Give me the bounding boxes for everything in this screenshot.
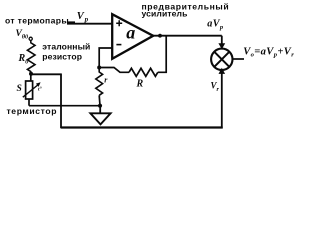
svg-text:эталонный: эталонный xyxy=(42,42,90,52)
node: output junction xyxy=(158,34,162,38)
svg-text:r: r xyxy=(104,75,108,84)
svg-text:S: S xyxy=(17,84,22,94)
wire: down into summing node with arrow xyxy=(218,36,225,50)
wire: Vr vertical xyxy=(221,70,223,129)
svg-text:усилитель: усилитель xyxy=(142,8,188,18)
resistor R (feedback) xyxy=(129,68,158,89)
wire: thermocouple to + input xyxy=(67,23,113,25)
wire: thermistor bottom xyxy=(28,99,30,106)
svg-text:Vr: Vr xyxy=(211,81,220,93)
svg-text:t°: t° xyxy=(38,86,43,93)
svg-text:Vp: Vp xyxy=(77,11,89,24)
op-amp U1 (preamplifier) xyxy=(112,14,153,59)
wire: r to ground xyxy=(98,95,101,105)
svg-text:термистор: термистор xyxy=(7,106,58,116)
svg-text:от термопары: от термопары xyxy=(5,16,69,26)
svg-text:aVp: aVp xyxy=(207,18,224,31)
wire: bottom rail xyxy=(61,126,223,128)
arrow: Vr into summing node xyxy=(219,68,226,74)
svg-text:Vθ0: Vθ0 xyxy=(16,29,29,41)
wire: Vr node riser xyxy=(60,74,62,128)
resistor R0 (reference) xyxy=(18,43,36,72)
wire: summing node output xyxy=(232,58,244,60)
thermistor S xyxy=(23,81,43,99)
wire: thermistor top to riser xyxy=(31,73,62,75)
svg-text:R0: R0 xyxy=(18,53,30,66)
wire: op-amp output xyxy=(152,35,222,37)
wire: junction to R xyxy=(99,68,129,73)
label: эталонный резистор xyxy=(42,42,90,62)
resistor r xyxy=(96,69,109,95)
svg-text:резистор: резистор xyxy=(42,51,82,61)
summing node (circle with X) xyxy=(211,49,232,70)
terminal Vθ0 xyxy=(29,37,32,40)
wire: ground rail xyxy=(29,105,100,107)
svg-text:R: R xyxy=(136,79,144,90)
node: ground junction xyxy=(98,104,102,108)
wire: R to output node xyxy=(158,36,166,73)
node: thermistor top xyxy=(29,72,33,76)
svg-text:Vo=aVp+Vr: Vo=aVp+Vr xyxy=(243,46,294,58)
svg-text:a: a xyxy=(126,22,135,42)
wire: inverting input xyxy=(99,48,113,68)
wire: terminal to R0 xyxy=(30,40,32,43)
ground xyxy=(90,106,110,125)
label: предварительный усилитель xyxy=(142,2,230,19)
wire: R0 to thermistor xyxy=(30,72,32,81)
node: feedback junction xyxy=(97,66,101,70)
